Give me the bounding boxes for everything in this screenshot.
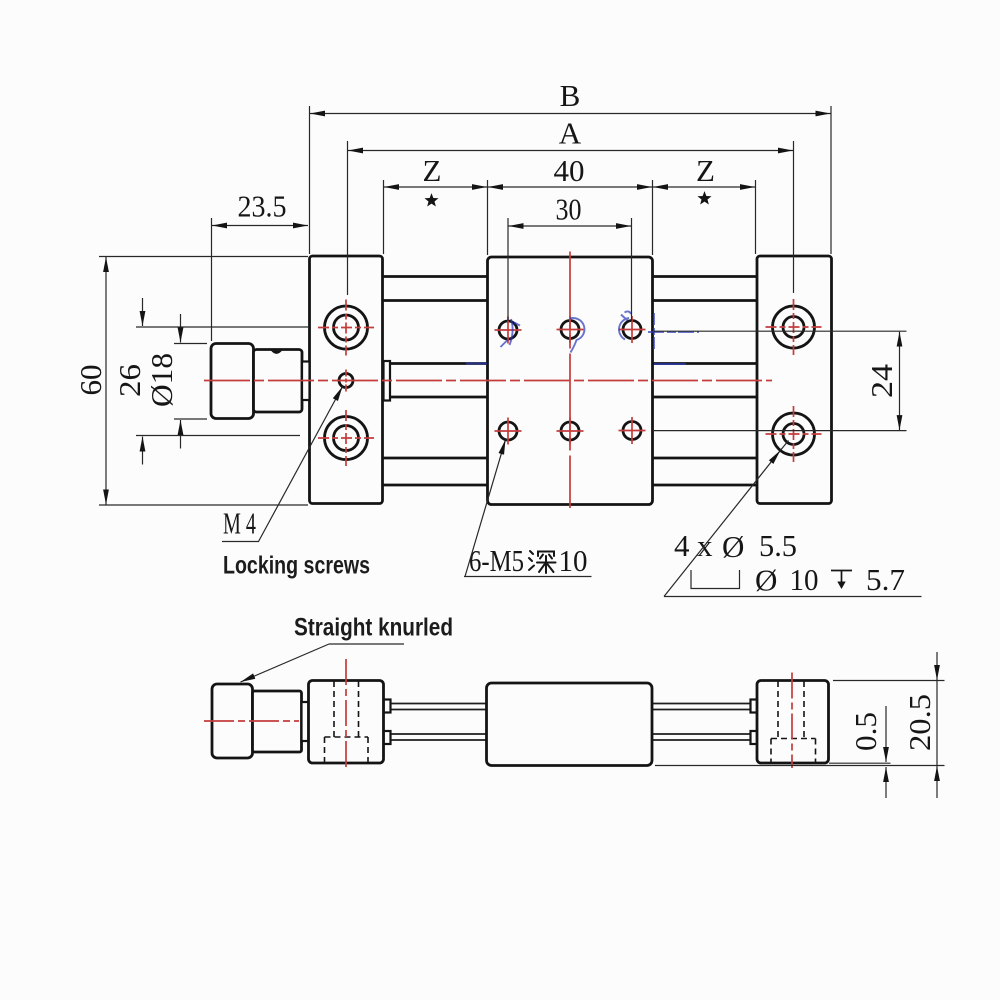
dimension 20.5 line [936, 681, 938, 766]
star right [697, 191, 711, 204]
svg-text:24: 24 [864, 363, 899, 398]
svg-text:4: 4 [674, 528, 690, 563]
ext line dia18 top [174, 343, 207, 345]
ext line A right [793, 141, 795, 293]
carriage bottom extension line [655, 765, 945, 767]
ext lines Z/40 row [383, 180, 385, 254]
top guide rail [382, 275, 758, 278]
6-M5 note underline [464, 576, 592, 578]
blue pen mark at rod top edge [466, 363, 487, 365]
blue pen marks at plate top-left hole [501, 319, 521, 347]
counterbore symbol [691, 570, 740, 589]
svg-text:40: 40 [554, 153, 585, 188]
svg-text:M 4: M 4 [223, 506, 256, 541]
dimension 30 [509, 225, 632, 227]
svg-text:Straight knurled: Straight knurled [294, 614, 453, 642]
6-M5 leader [465, 440, 506, 577]
svg-text:6-M5: 6-M5 [469, 543, 524, 578]
svg-text:Ø: Ø [722, 529, 744, 564]
dimension 0.5 arrows [885, 706, 887, 762]
left end block [310, 256, 383, 504]
4x dia5.5 note underline [664, 596, 922, 598]
dimension 60 [105, 257, 107, 505]
side knob [212, 684, 253, 758]
red cross right top hole [766, 326, 822, 328]
right end block [757, 256, 832, 504]
carriage plate M5 holes bottom row [499, 422, 517, 440]
4x dia5.5 leader [664, 450, 780, 596]
ext line 23.5 left [211, 218, 213, 341]
ext line 26 bottom [136, 435, 300, 437]
ext line 24 top [654, 330, 907, 332]
blue pen marks at plate top-right hole [619, 311, 631, 339]
rod flange [384, 361, 391, 401]
svg-text:B: B [560, 78, 581, 113]
left block top counterbore hole [325, 306, 368, 349]
svg-text:10: 10 [790, 562, 819, 597]
svg-text:26: 26 [112, 364, 147, 397]
svg-text:20.5: 20.5 [902, 694, 937, 751]
arrow 26 bottom [142, 437, 144, 465]
blue pen horizontal mark upper [648, 331, 699, 333]
dimension 40 [488, 186, 652, 188]
red vertical centerline of carriage [569, 252, 571, 509]
M4 note underline [222, 541, 259, 543]
arrow dia18 top [180, 314, 182, 343]
svg-text:Z: Z [696, 153, 715, 188]
hidden slot left block [325, 681, 369, 763]
red cross M4 hole [345, 370, 347, 392]
leader tail into hole [780, 441, 788, 451]
dimension 23.5 [212, 225, 308, 227]
red centerline side left block [345, 659, 347, 768]
knurled leader arrow [241, 644, 330, 682]
bottom guide rail [382, 457, 758, 460]
side rails left segment [384, 704, 487, 741]
knob [211, 344, 254, 419]
piston rod [390, 362, 758, 365]
rail end caps left block [384, 700, 391, 713]
knurled leader horizontal [329, 643, 404, 645]
arrow 26 top [142, 298, 144, 326]
block bottom extension line [829, 762, 891, 764]
svg-text:30: 30 [556, 192, 582, 227]
dimension A line [348, 150, 793, 152]
collar stub [302, 362, 310, 401]
blue pen horizontal mark lower [654, 363, 686, 365]
blue pen marks at plate middle hole [570, 318, 584, 352]
dimension 24 [899, 332, 901, 430]
red centerline side right block [791, 673, 793, 769]
star left [424, 193, 438, 206]
side right block [757, 681, 829, 764]
svg-text:Ø: Ø [755, 563, 777, 598]
side left block [309, 681, 384, 764]
ext line 26 top [136, 326, 309, 328]
side stub [302, 702, 309, 741]
dimension Z left [384, 186, 487, 188]
svg-text:Ø18: Ø18 [144, 353, 179, 407]
ext line 60 bottom [99, 504, 308, 506]
ext line A left [347, 141, 349, 295]
svg-text:A: A [559, 116, 582, 151]
ext line 24 bottom [654, 430, 907, 432]
ext lines 30 [507, 218, 509, 321]
dimension B line [310, 113, 831, 115]
svg-text:5.7: 5.7 [866, 562, 905, 597]
M4 leader [259, 387, 343, 542]
hidden slot right block [771, 681, 816, 763]
red cross left top hole [318, 327, 374, 329]
side carriage block [487, 683, 653, 766]
dimension Z right [653, 186, 755, 188]
red horizontal main centerline [204, 380, 772, 382]
right block bottom counterbore hole [773, 413, 815, 455]
red centerline side knob [204, 720, 299, 722]
svg-text:0.5: 0.5 [848, 712, 883, 751]
carriage plate M5 holes top row [499, 321, 517, 339]
red cross left bottom hole [318, 437, 374, 439]
arrow dia18 bottom [180, 420, 182, 449]
ext line B left [309, 106, 311, 254]
svg-text:5.5: 5.5 [759, 528, 797, 563]
svg-text:Z: Z [423, 153, 442, 188]
svg-text:Locking screws: Locking screws [223, 552, 370, 580]
side rails right segment [652, 704, 751, 741]
red crosses plate holes [495, 316, 646, 445]
ext line B right [830, 106, 832, 254]
block top extension line [833, 680, 945, 682]
side collar [253, 691, 302, 752]
red cross right bottom hole [766, 433, 822, 435]
carriage plate [488, 257, 653, 505]
left block bottom counterbore hole [325, 417, 368, 460]
glyph shen (depth) [529, 551, 556, 573]
rail end caps right block [751, 700, 758, 713]
svg-text:60: 60 [73, 365, 108, 396]
ext line dia18 bottom [174, 418, 207, 420]
collar set screw notch [271, 351, 282, 354]
svg-text:23.5: 23.5 [238, 189, 287, 224]
knob collar [254, 350, 303, 413]
ext line 60 top [99, 256, 308, 258]
dimension 20.5 arrows [936, 652, 938, 680]
M4 locking screw hole [339, 374, 353, 388]
right block top counterbore hole [773, 306, 815, 348]
depth symbol [831, 571, 852, 590]
svg-text:10: 10 [559, 543, 588, 578]
blue pen vertical mark right of plate [653, 313, 655, 350]
